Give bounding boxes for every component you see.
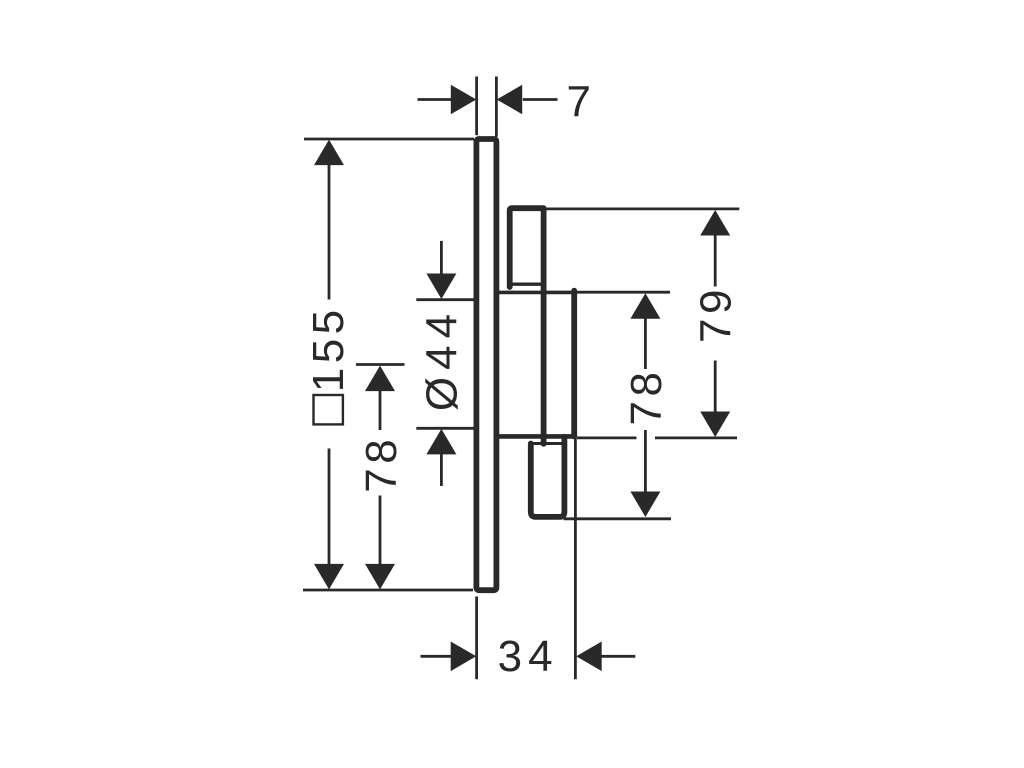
dimension 34: left leader line [421, 655, 452, 658]
dimension 78 left: upper line segment [379, 390, 382, 430]
dimension 79: lower line segment [714, 361, 717, 413]
svg-text:155: 155 [304, 305, 353, 392]
dimension 7: left arrowhead [451, 85, 477, 115]
svg-text:7: 7 [566, 78, 590, 127]
plate (wall plate, side view) [476, 139, 496, 590]
dimension 34: left extension line [475, 597, 478, 680]
dimension 79: top tick [547, 207, 740, 210]
dimension 78 left: lower line segment [379, 496, 382, 566]
dimension 79: top arrowhead [700, 210, 730, 236]
top knob: bottom edge (thin) [511, 283, 543, 286]
top knob: left and top edges [510, 208, 544, 287]
svg-text:79: 79 [692, 285, 741, 343]
dimension 78 right: bottom tick [564, 517, 672, 520]
dimension 34: right extension line [574, 439, 577, 680]
dimension 7: left leader line [418, 98, 452, 101]
dimension 79: bottom reference line right part [655, 436, 737, 439]
dimension Ø44: lower line segment [440, 454, 443, 487]
lower knob: top edge (thin) [529, 442, 564, 445]
dimension 79: bottom reference line left part [577, 436, 637, 439]
dimension 155: top arrowhead [314, 140, 344, 166]
dimension 34: left arrowhead [451, 642, 477, 672]
dimension Ø44: upper arrowhead (pointing down) [426, 274, 456, 300]
dimension 79: upper line segment [714, 235, 717, 287]
dimension Ø44: lower tick [416, 427, 474, 430]
body: top edge (thin) [497, 291, 575, 295]
svg-text:34: 34 [498, 632, 559, 681]
dimension Ø44: upper tick [416, 298, 474, 301]
dimension 79: bottom arrowhead [700, 412, 730, 438]
dimension 78 right: top arrowhead [630, 293, 660, 319]
dimension Ø44: lower arrowhead (pointing up) [426, 429, 456, 455]
dimension 155: upper line segment [328, 164, 331, 300]
body: bottom edge [497, 434, 577, 439]
svg-text:78: 78 [622, 368, 671, 426]
dimension 155: top extension line [304, 138, 474, 141]
dimension 7: right arrowhead [497, 85, 523, 115]
dimension 78 right: top tick [577, 291, 670, 294]
svg-text:78: 78 [357, 435, 406, 493]
svg-text:Ø44: Ø44 [417, 307, 466, 411]
dimension 78 right: upper line segment [644, 318, 647, 370]
dimension 155: square symbol [314, 395, 343, 424]
dimension 155: bottom extension line [303, 589, 473, 592]
dimension 155: lower line segment [328, 449, 331, 566]
dimension 155: bottom arrowhead [314, 564, 344, 590]
dimension 7: right extension line [495, 77, 498, 137]
dimension Ø44: upper line segment [440, 241, 443, 275]
dimension 7: right leader line [523, 98, 558, 101]
dimension 78 right: bottom arrowhead [630, 492, 660, 518]
dimension 34: right arrowhead [576, 642, 602, 672]
body: right edge [571, 291, 577, 437]
dimension 34: right leader line [601, 655, 635, 658]
lower knob: sides and bottom [531, 437, 565, 517]
dimension 7: left extension line [475, 77, 478, 136]
dimension 78 right: lower line segment [644, 430, 647, 493]
dimension 78 left: top arrowhead [365, 366, 395, 392]
dimension 78 left: bottom arrowhead [365, 564, 395, 590]
dimension 78 left: top tick [356, 363, 405, 366]
sleeve line (knob right edge continued through body) [541, 209, 547, 444]
